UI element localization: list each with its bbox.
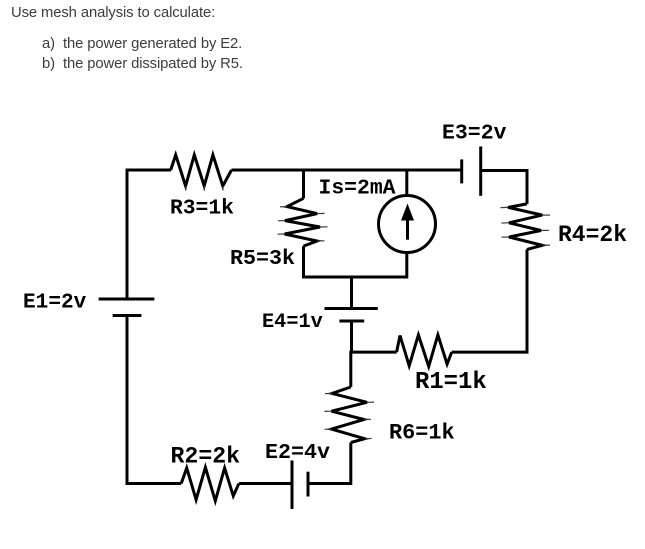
svg-text:R5=3k: R5=3k	[230, 246, 295, 271]
svg-text:R2=2k: R2=2k	[171, 444, 241, 470]
resistor R4 overshoot ticks	[501, 207, 551, 245]
battery E1	[99, 299, 155, 316]
wire R6 top to junction	[349, 351, 352, 387]
title text	[11, 5, 215, 21]
current source Is	[379, 196, 436, 253]
wire right vertical R4 to R1	[526, 249, 529, 352]
wire mesh bottom horizontal	[304, 246, 407, 277]
svg-text:E2=4v: E2=4v	[265, 440, 330, 465]
wire Is top	[405, 169, 408, 196]
battery E4	[325, 309, 378, 322]
svg-text:E1=2v: E1=2v	[23, 291, 87, 315]
svg-text:R1=1k: R1=1k	[415, 369, 487, 396]
wire left vertical top	[126, 169, 129, 300]
battery E3	[462, 147, 481, 196]
wire R1 right segment	[452, 351, 529, 354]
item a	[42, 36, 242, 52]
wire E4 up to mesh bottom	[350, 276, 353, 309]
svg-text:E4=1v: E4=1v	[262, 311, 323, 334]
resistor R2	[181, 467, 239, 501]
battery E2	[292, 461, 308, 510]
resistor R4	[508, 204, 542, 250]
wire left vertical bottom	[127, 316, 181, 484]
resistor R3	[171, 155, 232, 186]
resistor R6 overshoot ticks	[325, 393, 375, 438]
svg-text:Is=2mA: Is=2mA	[319, 177, 396, 201]
wire top-left horizontal	[126, 169, 172, 172]
wire top horizontal to E3	[232, 169, 462, 172]
resistor R3 overshoot ticks	[186, 186, 223, 191]
wire E3 to top-right corner	[481, 171, 527, 204]
wire E2 to bottom-right corner	[308, 443, 351, 484]
svg-text:E3=2v: E3=2v	[442, 122, 507, 146]
wire R5 top to top wire	[302, 169, 305, 199]
wire R2 to E2	[239, 482, 292, 485]
wire junction up to E4	[350, 321, 353, 354]
svg-text:R6=1k: R6=1k	[389, 421, 455, 446]
resistor R5	[285, 198, 320, 246]
resistor R6	[332, 387, 368, 443]
resistor R1	[397, 335, 452, 367]
resistor R5 overshoot ticks	[278, 207, 328, 241]
svg-text:R4=2k: R4=2k	[558, 222, 627, 248]
item b	[42, 56, 243, 72]
wire junction to R1	[350, 351, 397, 354]
svg-text:R3=1k: R3=1k	[170, 197, 234, 221]
